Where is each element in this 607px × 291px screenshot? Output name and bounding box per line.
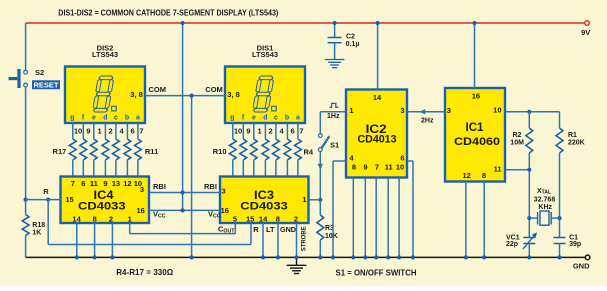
svg-text:3: 3	[447, 106, 451, 115]
svg-text:6: 6	[81, 179, 85, 188]
svg-text:R18: R18	[32, 222, 45, 229]
svg-text:R10: R10	[213, 147, 227, 156]
svg-text:7: 7	[139, 127, 143, 136]
svg-text:1: 1	[258, 127, 262, 136]
svg-text:S2: S2	[35, 68, 44, 77]
svg-text:10: 10	[396, 163, 404, 172]
svg-text:COM: COM	[149, 85, 167, 94]
svg-text:LTS543: LTS543	[252, 50, 278, 59]
svg-text:d: d	[263, 115, 267, 122]
svg-text:2: 2	[269, 127, 273, 136]
svg-text:1: 1	[128, 214, 132, 223]
svg-text:3: 3	[140, 185, 144, 194]
svg-text:3: 3	[222, 187, 226, 196]
svg-text:14: 14	[373, 93, 382, 102]
svg-text:9V: 9V	[581, 28, 590, 37]
svg-text:DIS1-DIS2 = COMMON CATHODE 7-S: DIS1-DIS2 = COMMON CATHODE 7-SEGMENT DIS…	[58, 8, 278, 17]
svg-text:3, 8: 3, 8	[130, 90, 143, 99]
svg-text:8: 8	[482, 171, 486, 180]
svg-text:COM: COM	[205, 85, 223, 94]
svg-text:14: 14	[259, 214, 268, 223]
svg-text:R1: R1	[568, 132, 577, 139]
svg-text:7: 7	[299, 127, 303, 136]
svg-text:15: 15	[65, 195, 73, 204]
svg-text:C2: C2	[346, 34, 355, 41]
svg-text:R: R	[43, 187, 49, 196]
svg-text:3, 8: 3, 8	[227, 90, 240, 99]
svg-text:b: b	[285, 115, 289, 122]
svg-text:16: 16	[136, 206, 144, 215]
svg-text:5: 5	[233, 214, 237, 223]
svg-text:a: a	[136, 115, 140, 122]
svg-text:10: 10	[493, 106, 501, 115]
svg-text:CD4033: CD4033	[240, 200, 288, 212]
svg-text:IC1: IC1	[466, 122, 485, 134]
svg-text:10K: 10K	[325, 233, 338, 240]
svg-text:STROBE: STROBE	[300, 226, 307, 251]
svg-text:S1: S1	[330, 141, 339, 150]
svg-text:8: 8	[276, 214, 280, 223]
svg-text:b: b	[125, 115, 129, 122]
svg-text:8: 8	[93, 214, 97, 223]
svg-text:GND: GND	[573, 261, 590, 270]
svg-text:2Hz: 2Hz	[421, 118, 434, 125]
svg-text:d: d	[103, 115, 107, 122]
svg-text:220K: 220K	[568, 140, 585, 147]
svg-text:R4-R17 = 330Ω: R4-R17 = 330Ω	[116, 267, 173, 277]
svg-text:11: 11	[385, 163, 393, 172]
svg-text:10: 10	[234, 127, 242, 136]
svg-text:1Hz: 1Hz	[327, 113, 340, 120]
svg-text:CD4033: CD4033	[78, 200, 126, 212]
svg-text:8: 8	[352, 163, 356, 172]
svg-text:39p: 39p	[569, 241, 581, 248]
svg-text:S1 = ON/OFF SWITCH: S1 = ON/OFF SWITCH	[336, 268, 417, 278]
svg-text:CD4013: CD4013	[358, 134, 397, 146]
svg-text:R4: R4	[304, 148, 314, 157]
svg-text:g: g	[70, 115, 74, 122]
svg-text:a: a	[296, 115, 300, 122]
svg-text:10: 10	[74, 127, 82, 136]
svg-text:14: 14	[72, 214, 81, 223]
svg-text:c: c	[114, 115, 118, 122]
svg-text:12: 12	[463, 171, 471, 180]
svg-text:9: 9	[363, 163, 367, 172]
svg-text:11: 11	[494, 165, 502, 174]
svg-text:7: 7	[375, 163, 379, 172]
svg-text:CD4060: CD4060	[454, 136, 500, 148]
svg-text:RBI: RBI	[204, 182, 217, 191]
svg-text:g: g	[230, 115, 234, 122]
svg-text:LT: LT	[266, 225, 275, 234]
svg-text:e: e	[252, 115, 256, 122]
svg-text:XTAL: XTAL	[537, 188, 551, 196]
svg-text:2: 2	[109, 127, 113, 136]
svg-text:R2: R2	[513, 132, 522, 139]
svg-text:7: 7	[71, 179, 75, 188]
svg-text:6: 6	[131, 127, 135, 136]
svg-text:9: 9	[246, 127, 250, 136]
svg-text:e: e	[92, 115, 96, 122]
svg-text:11: 11	[90, 179, 98, 188]
svg-text:3: 3	[400, 106, 404, 115]
svg-text:1: 1	[349, 106, 353, 115]
svg-text:LTS543: LTS543	[92, 50, 118, 59]
svg-text:RESET: RESET	[34, 81, 60, 90]
svg-text:R: R	[253, 225, 259, 234]
svg-text:RBI: RBI	[153, 182, 166, 191]
svg-text:GND: GND	[280, 225, 297, 234]
svg-text:1K: 1K	[32, 229, 41, 236]
svg-text:16: 16	[472, 92, 480, 101]
svg-text:22p: 22p	[506, 241, 518, 248]
svg-text:9: 9	[103, 179, 107, 188]
svg-text:32.768: 32.768	[534, 196, 556, 203]
svg-text:1: 1	[98, 127, 102, 136]
svg-text:c: c	[274, 115, 278, 122]
svg-text:R11: R11	[145, 147, 158, 156]
svg-text:16: 16	[221, 206, 229, 215]
svg-text:2: 2	[109, 214, 113, 223]
svg-text:12: 12	[123, 179, 131, 188]
svg-text:0.1µ: 0.1µ	[346, 41, 360, 48]
svg-text:10M: 10M	[510, 140, 524, 147]
svg-text:6: 6	[291, 127, 295, 136]
svg-text:2: 2	[294, 214, 298, 223]
svg-text:R17: R17	[53, 147, 67, 156]
svg-text:13: 13	[112, 179, 120, 188]
svg-text:9: 9	[86, 127, 90, 136]
svg-text:15: 15	[246, 214, 254, 223]
svg-text:6: 6	[400, 154, 404, 163]
svg-text:1: 1	[302, 195, 306, 204]
svg-text:KHz: KHz	[538, 204, 552, 211]
